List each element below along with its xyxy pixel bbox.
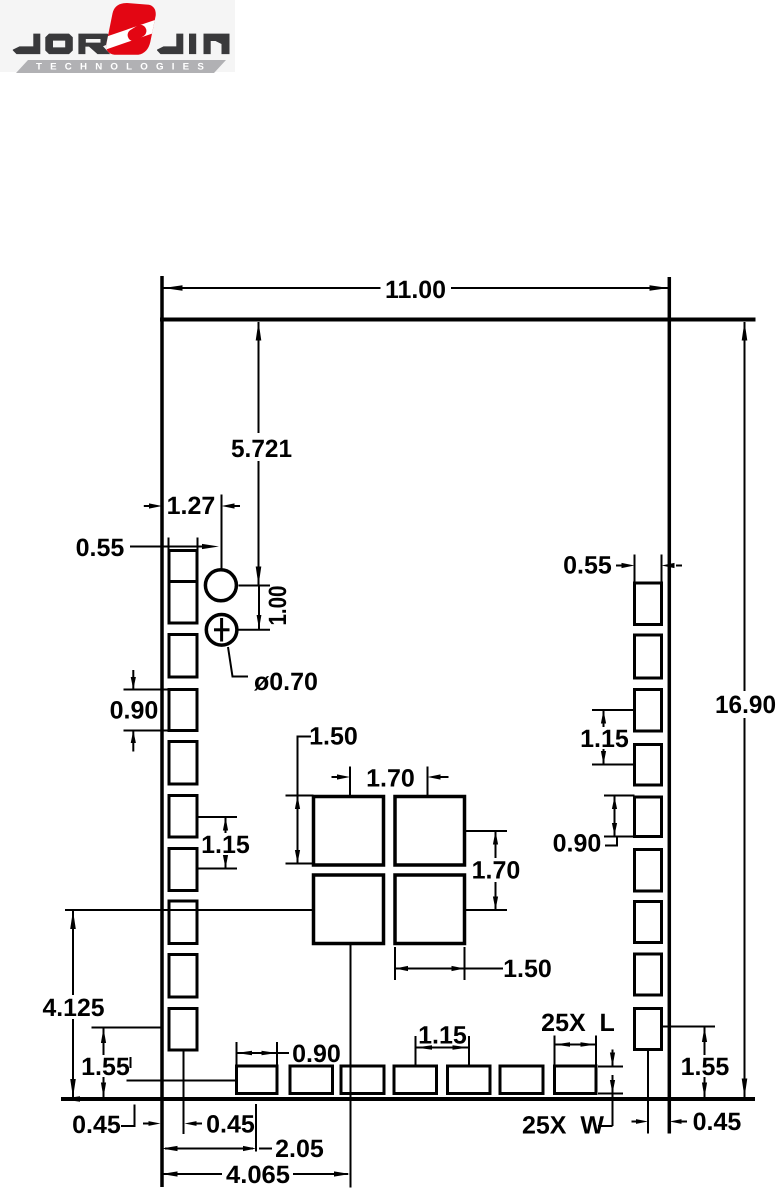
pad L8: [169, 901, 197, 944]
arrow 25XL left: [555, 1042, 571, 1046]
arrow 11.00 left: [164, 285, 183, 291]
arrow 0.90L down: [131, 677, 136, 690]
svg-text:1.15: 1.15: [580, 725, 629, 753]
pad R6: [635, 850, 662, 892]
dim 1.00 line: [258, 586, 260, 630]
dim 0.90 R ticks: [604, 795, 635, 797]
pad C-TR: [395, 797, 465, 866]
arrow 1.50B left: [395, 966, 408, 971]
dim 1.70 right leaders: [465, 830, 508, 832]
arrow 4.125 down: [70, 1079, 76, 1098]
arrow 1.50TL up: [295, 796, 300, 810]
circle2 leader: [238, 629, 270, 631]
pad B6: [500, 1066, 543, 1094]
arrow 25XL right: [581, 1042, 597, 1046]
pad L1: [169, 551, 197, 582]
arrow 1.15R up: [601, 710, 606, 724]
pad B5: [448, 1066, 491, 1094]
svg-text:0.90: 0.90: [110, 697, 159, 725]
arrow 0.55L right: [202, 544, 219, 549]
pad L2: [169, 582, 197, 624]
svg-text:1.15: 1.15: [201, 831, 250, 859]
logo background: [0, 0, 235, 72]
svg-text:1.50: 1.50: [503, 955, 552, 983]
svg-text:1.00: 1.00: [264, 586, 292, 626]
pad L7: [169, 849, 197, 891]
pad L5: [169, 742, 197, 785]
pad R4: [635, 745, 662, 786]
arrow 0.90B left: [237, 1051, 253, 1055]
pad R3: [635, 690, 662, 732]
svg-text:0.55: 0.55: [76, 534, 125, 562]
svg-text:0.45: 0.45: [693, 1108, 742, 1136]
dim 25X L ticks: [554, 1036, 556, 1067]
arrow 1.50B right: [452, 966, 465, 971]
svg-text:16.90: 16.90: [715, 691, 776, 719]
arrow 1.55R down: [702, 1083, 707, 1098]
DIMENSION TEXT: [43, 276, 777, 1189]
central pad centerline: [350, 944, 352, 1188]
left pad column: [169, 551, 197, 1051]
arrow 4.065 right: [334, 1171, 350, 1176]
svg-text:1.55: 1.55: [681, 1053, 730, 1081]
hole centerline tick: [221, 495, 223, 518]
arrow 0.90R up: [612, 797, 617, 810]
svg-text:4.125: 4.125: [43, 994, 105, 1022]
arrow 5.721 down: [256, 567, 262, 586]
arrow 1.55R up: [702, 1027, 707, 1042]
dim 0.90 L ticks: [124, 689, 169, 691]
drawing: module outline: [61, 276, 756, 1187]
svg-text:TECHNOLOGIES: TECHNOLOGIES: [36, 62, 212, 73]
svg-text:1.55: 1.55: [81, 1053, 130, 1081]
25X W ext lines: [598, 1066, 623, 1068]
logo word JIN: [157, 34, 230, 55]
dim 16.90 line: [744, 322, 746, 691]
arrow 1.15B left: [416, 1045, 433, 1049]
pad L10: [169, 1009, 197, 1051]
svg-text:2.05: 2.05: [275, 1135, 324, 1163]
via circle with cross: [206, 615, 237, 646]
dim 5.721 line: [258, 322, 260, 433]
arrow 0.55R right: [622, 563, 635, 568]
arrow 1.15B right: [453, 1045, 470, 1049]
pad L10 centerline: [183, 1050, 185, 1134]
arrow 1.15L up: [223, 817, 228, 831]
svg-text:0.45: 0.45: [72, 1111, 121, 1139]
arrow 0.45BL2 right: [149, 1121, 161, 1126]
pad L3: [169, 635, 197, 678]
pad R9 centerline: [647, 1050, 649, 1134]
arrow 1.70R up: [493, 831, 498, 845]
dim 0.90 B ticks: [236, 1042, 238, 1065]
pad B7: [555, 1066, 597, 1094]
module right edge (with extension above and below): [668, 277, 672, 1134]
pad B1: [237, 1066, 278, 1094]
dim 0.55 R dashes: [616, 565, 622, 567]
dim 0.45 BL1 leader: [121, 1105, 135, 1127]
dim 0.45 BL2 dashes: [143, 1123, 150, 1125]
svg-text:4.065: 4.065: [226, 1161, 290, 1189]
bottom pad row: [237, 1066, 597, 1094]
arrow 0.90R down: [612, 823, 617, 836]
arrow 1.27 right: [149, 503, 162, 508]
pad B1 centerline: [255, 1104, 257, 1152]
dia 0.70 leader: [228, 647, 248, 677]
right pad column: [635, 583, 662, 1050]
arrow 5.721 up: [256, 322, 262, 341]
pad L6: [169, 796, 197, 838]
hole centerline to circle: [221, 518, 223, 570]
dim 11.00 line: [164, 287, 381, 289]
pad R1 extension lines: [634, 555, 636, 584]
arrow 16.90 up: [742, 322, 748, 341]
arrow 25XW down: [610, 1053, 615, 1067]
pad L4: [169, 690, 197, 731]
pad C-BL: [314, 875, 384, 944]
svg-text:1.15: 1.15: [418, 1022, 467, 1050]
module top edge: [160, 318, 756, 322]
dim 2.05 line: [165, 1148, 253, 1150]
dim 1.15 B ticks: [415, 1036, 417, 1066]
arrow 11.00 right: [650, 285, 669, 291]
arrow 2.05 right: [243, 1146, 256, 1151]
dim 1.50 bottom ext lines: [394, 947, 396, 980]
dim 0.45 BR dashes: [632, 1121, 639, 1123]
arrow 1.70top left: [428, 774, 441, 779]
logo word JOR: [13, 34, 110, 55]
arrow 1.27 left: [222, 503, 235, 508]
arrow 1.15R down: [601, 751, 606, 765]
svg-text:1.27: 1.27: [167, 492, 216, 520]
central thermal pads: [314, 797, 465, 944]
ARROWHEADS: [70, 285, 747, 1176]
bottom edge left arrow: [61, 1096, 80, 1102]
dim 1.15 R leaders: [592, 709, 635, 711]
arrow 0.45BR left: [670, 1119, 682, 1124]
arrow 1.55L up: [101, 1028, 106, 1043]
arrow 0.45BL2 left: [185, 1121, 197, 1126]
arrow 0.90B right: [262, 1051, 278, 1055]
dim 1.27 arrow dashes: [144, 505, 150, 507]
arrow 1.70top right: [337, 774, 350, 779]
pad B2: [290, 1066, 333, 1094]
pad R1: [635, 583, 662, 625]
svg-text:25X W: 25X W: [522, 1112, 604, 1140]
logo red badge: [96, 3, 166, 55]
pad R8: [635, 954, 662, 995]
logo red e-counter oval: [125, 23, 148, 44]
svg-text:0.45: 0.45: [206, 1111, 255, 1139]
dim 4.125 leader: [65, 909, 314, 911]
svg-text:0.90: 0.90: [553, 830, 602, 858]
pad R5: [635, 797, 662, 837]
pad B4: [394, 1066, 437, 1094]
25X W arrow stems: [612, 1050, 614, 1067]
svg-text:1.70: 1.70: [472, 857, 521, 885]
logo technologies banner: [16, 60, 226, 73]
svg-text:0.90: 0.90: [292, 1040, 341, 1068]
svg-text:1.70: 1.70: [366, 765, 415, 793]
pad L1 extension lines: [168, 538, 170, 552]
DIMENSIONS: [65, 288, 745, 1188]
dim 1.50 TL leader: [298, 737, 312, 864]
pad R9: [635, 1009, 662, 1050]
arrow 25XW up2: [610, 1080, 615, 1094]
pad L9: [169, 955, 197, 998]
arrow 4.125 up: [70, 911, 76, 930]
arrow 1.50TL down: [295, 850, 300, 864]
25X W leader: [612, 1094, 614, 1127]
svg-text:0.55: 0.55: [563, 552, 612, 580]
dim 1.50 TL ticks: [286, 795, 314, 797]
tick after 1.55 text: [130, 1057, 132, 1068]
via cross hair: [214, 618, 230, 642]
dim 0.55 L line: [130, 546, 204, 548]
pad C-BR: [395, 875, 465, 944]
pad B3: [341, 1066, 384, 1094]
pad R7: [635, 902, 662, 943]
arrow 0.55R left: [662, 563, 675, 568]
pad R2: [635, 635, 662, 678]
svg-text:1.50: 1.50: [309, 723, 358, 751]
pad C-TL: [314, 797, 384, 866]
logo white band of e: [96, 17, 166, 51]
dim 1.15 L leaders: [198, 816, 238, 818]
svg-text:11.00: 11.00: [385, 276, 446, 304]
module bottom edge: [61, 1097, 755, 1101]
arrow 1.00 down: [257, 615, 262, 629]
dim 1.55 L leader: [92, 1027, 162, 1029]
circle1 leader: [239, 585, 271, 587]
bottom row centerline leader: [127, 1080, 237, 1082]
module left edge (with extension above and below): [160, 276, 164, 1187]
fiducial circle (plain): [205, 570, 236, 601]
dim 1.70 top ticks: [349, 767, 351, 797]
arrow 1.55L down: [101, 1083, 106, 1098]
arrow 1.15L down: [223, 855, 228, 869]
arrow 1.70R down: [493, 897, 498, 911]
svg-text:5.721: 5.721: [231, 435, 292, 463]
arrow 4.065 left: [162, 1171, 178, 1176]
arrow 0.45BR right: [636, 1119, 648, 1124]
dim 1.55 R leader: [662, 1026, 716, 1028]
svg-text:ø0.70: ø0.70: [254, 668, 318, 696]
arrow 0.90L up: [131, 731, 136, 744]
svg-text:25X L: 25X L: [541, 1009, 615, 1037]
arrow 16.90 down: [742, 1079, 748, 1098]
arrow 2.05 left: [162, 1146, 178, 1151]
dim 4.065 line: [163, 1173, 222, 1175]
